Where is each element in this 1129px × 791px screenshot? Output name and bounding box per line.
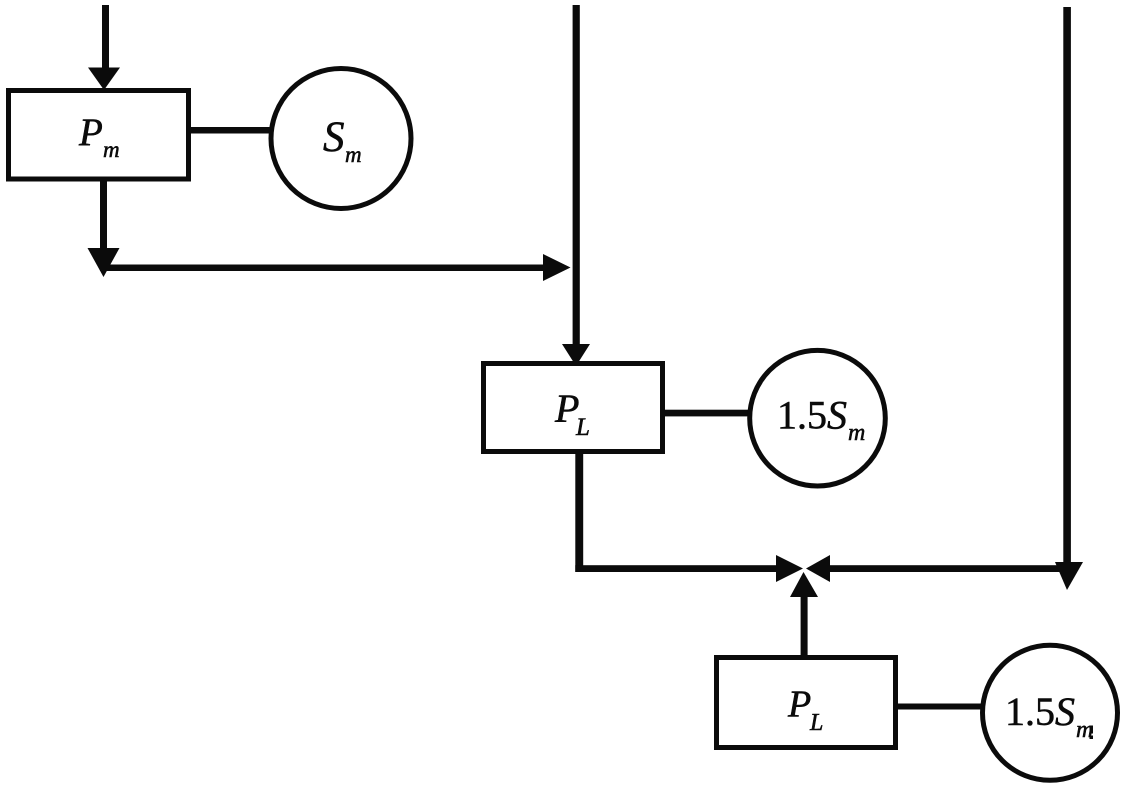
box Pm: [9, 91, 189, 180]
label Sm: [323, 114, 362, 167]
arrowhead left at junction: [806, 555, 830, 582]
wire: Pm to Sm circle: [189, 127, 270, 134]
label PL bottom: [787, 684, 823, 737]
arrowhead down into Pm: [88, 68, 120, 91]
wire: stem down from Pm: [100, 180, 107, 248]
wire: left vertical line from top: [573, 5, 580, 344]
arrowhead down at right vertical end: [1055, 562, 1083, 590]
svg-text:S: S: [323, 114, 345, 161]
arrowhead up at junction: [790, 572, 818, 597]
svg-text:m: m: [848, 420, 865, 446]
wire: stem up from PL bottom box: [801, 597, 808, 657]
circle Sm: [271, 69, 411, 209]
label Pm: [78, 111, 120, 162]
circle 1.5Sm bottom: [983, 645, 1118, 780]
svg-text:L: L: [575, 414, 590, 441]
label 1.5Sm middle: [777, 393, 865, 447]
label 1.5Sm bottom: [1005, 689, 1093, 743]
wire: right vertical line from top: [1063, 7, 1071, 562]
box PL bottom: [717, 658, 896, 748]
wire: horizontal from right vertical to junction: [830, 565, 1060, 572]
wire: stem down from PL middle: [575, 452, 583, 572]
wire: input stem into Pm box: [102, 5, 109, 69]
arrowhead right at junction: [776, 555, 803, 582]
circle 1.5Sm middle: [750, 350, 886, 486]
arrowhead down into PL box: [562, 344, 590, 366]
svg-text:P: P: [78, 111, 103, 154]
arrowhead down at corner: [88, 248, 120, 277]
box PL middle: [484, 364, 663, 452]
svg-text:L: L: [809, 710, 823, 736]
wire: horizontal from corner toward junction: [575, 565, 776, 572]
label PL middle: [554, 386, 590, 441]
wire: PL bottom to 1.5Sm circle: [896, 704, 982, 710]
svg-text:1.5S: 1.5S: [1005, 689, 1075, 734]
svg-text:m: m: [103, 137, 120, 162]
wire: PL to 1.5Sm circle: [663, 410, 749, 417]
wire: horizontal from Pm corner to left vertical: [100, 265, 543, 272]
svg-text:m: m: [345, 142, 362, 167]
svg-text:P: P: [787, 684, 811, 726]
svg-text:1.5S: 1.5S: [777, 393, 847, 438]
arrowhead right into left vertical line: [543, 254, 571, 281]
